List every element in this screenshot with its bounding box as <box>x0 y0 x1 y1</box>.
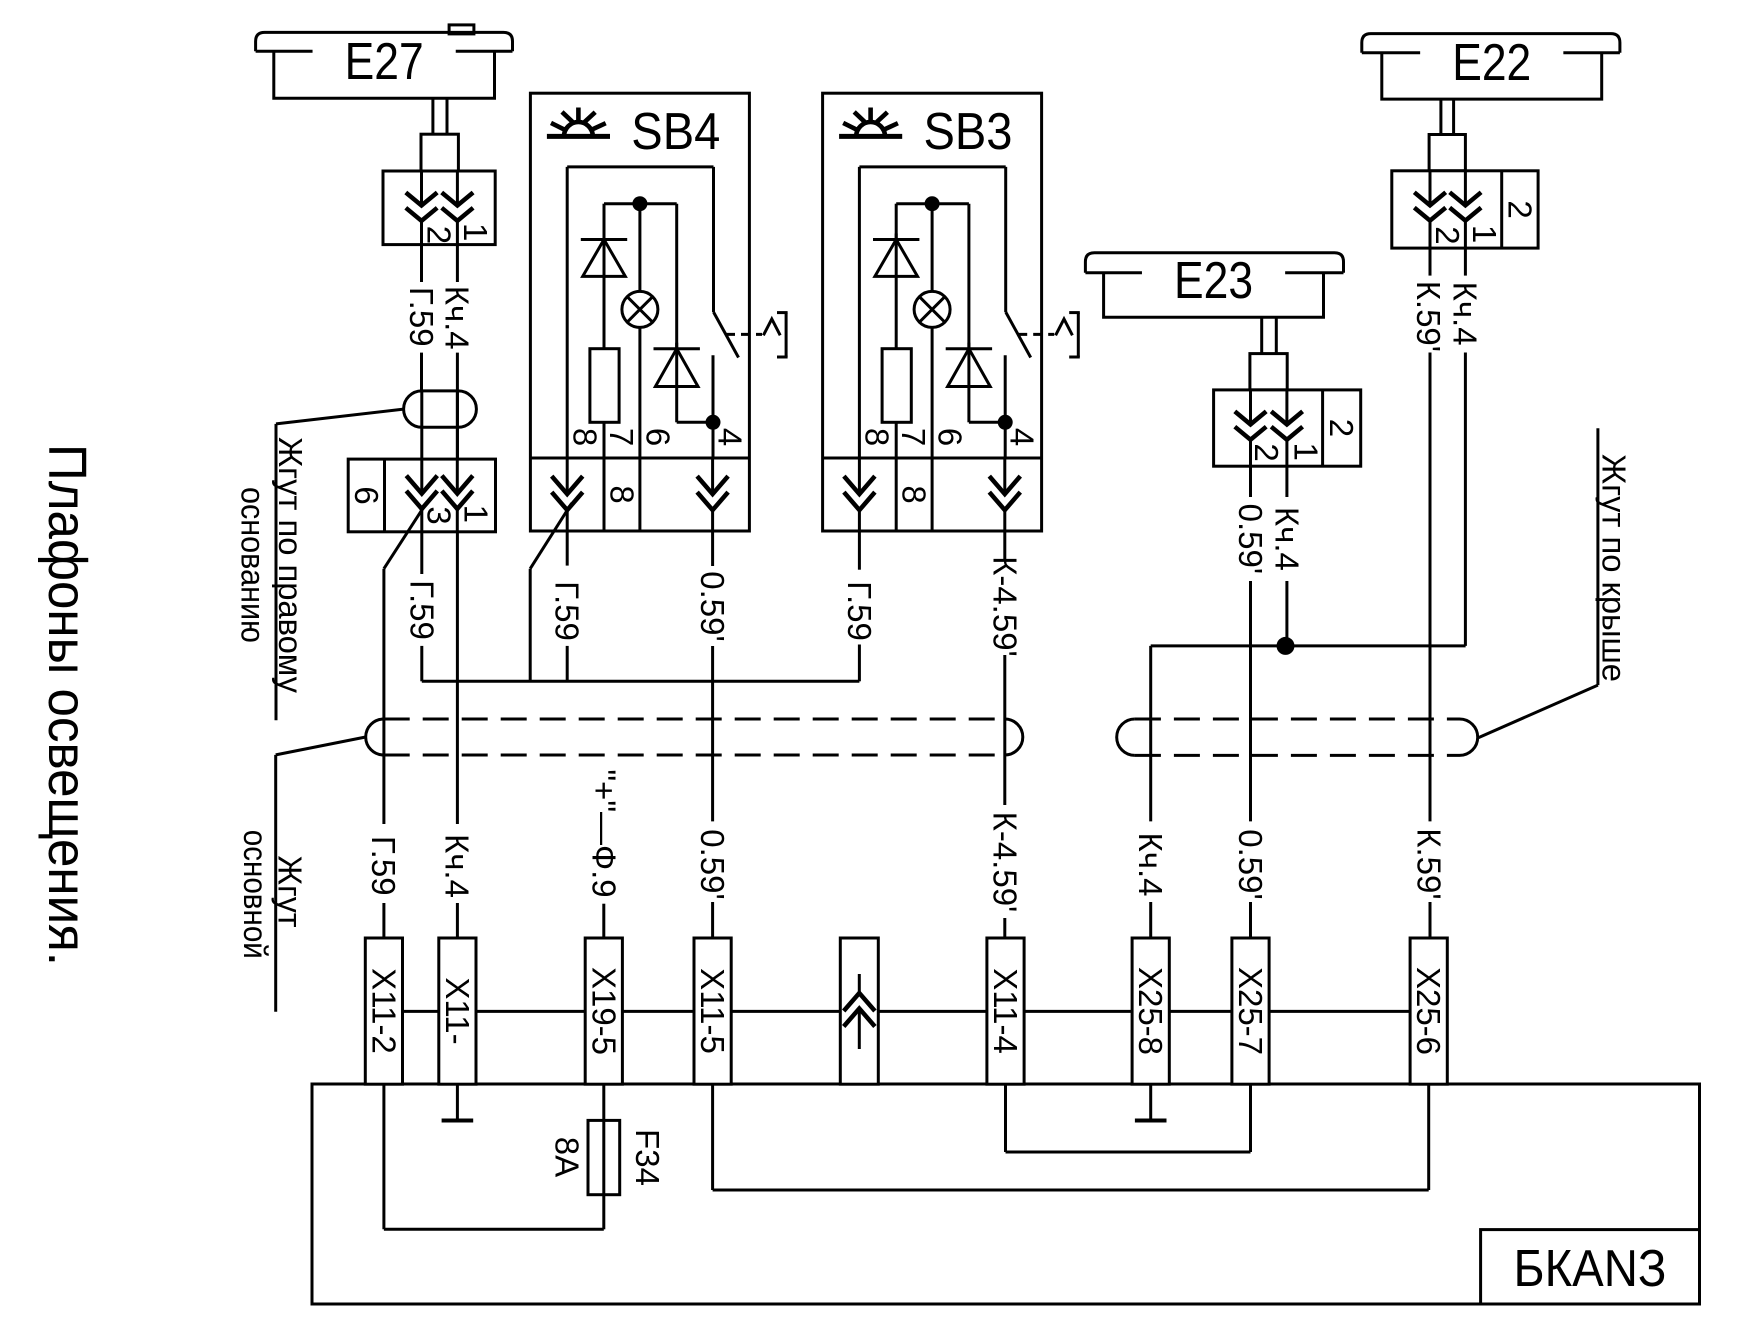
svg-text:6: 6 <box>348 486 385 504</box>
wire link Г.59 horizontal <box>422 680 860 683</box>
wire E27 leads <box>431 98 434 134</box>
connector body <box>1214 390 1361 466</box>
svg-text:основанию: основанию <box>235 487 272 643</box>
svg-text:0.59': 0.59' <box>1232 504 1269 575</box>
svg-text:БКАNЗ: БКАNЗ <box>1514 1240 1667 1298</box>
connector X19-5 <box>585 938 622 1084</box>
bus line <box>384 1010 1429 1013</box>
pin contact arrow 2 <box>456 459 459 494</box>
pin contact arrow 2 <box>1285 390 1288 425</box>
node pin4 junction <box>998 415 1013 430</box>
svg-text:7: 7 <box>603 428 640 446</box>
wire diode2 to pin4 <box>675 387 678 423</box>
harness mark oval <box>404 391 477 427</box>
svg-text:8: 8 <box>859 428 896 446</box>
cell divider <box>1500 171 1503 248</box>
connector X25-8 <box>1132 938 1169 1084</box>
wire Кч.4 drop to X25-8 <box>1149 646 1152 822</box>
svg-text:E22: E22 <box>1452 34 1531 92</box>
wire X11-4 to X25-7 <box>1004 1084 1007 1152</box>
svg-text:2: 2 <box>1429 226 1466 244</box>
svg-text:Г.59: Г.59 <box>403 287 440 347</box>
illumination icon <box>547 108 610 137</box>
block БКАNЗ box <box>312 1084 1700 1304</box>
node pin4 junction <box>706 415 721 430</box>
connector X11 pins 3,1 cell 6 <box>348 459 496 532</box>
illumination icon <box>839 108 902 137</box>
wire Г.59 SB3 pin8 <box>858 531 861 570</box>
tab E27 <box>449 25 474 34</box>
svg-text:E27: E27 <box>345 33 424 91</box>
wire pin 7 <box>895 422 898 458</box>
svg-text:4: 4 <box>712 428 749 446</box>
wire pin 6 <box>931 327 934 458</box>
wire Г.59 bus <box>382 569 385 824</box>
svg-text:1: 1 <box>457 505 494 523</box>
cap E23 <box>1085 253 1343 273</box>
switch blade <box>714 312 739 358</box>
actuator link <box>726 313 788 357</box>
svg-text:2: 2 <box>1323 419 1360 437</box>
node lamp tap <box>632 196 647 211</box>
wire 0.59' E23 pin2 <box>1249 466 1252 497</box>
svg-text:8: 8 <box>604 485 641 503</box>
node Кч.4 junction <box>1277 637 1295 655</box>
inner box / pin8-to-switch wire <box>858 167 861 458</box>
svg-text:SB4: SB4 <box>631 103 720 161</box>
strip contact arrow pin 8 <box>552 458 583 531</box>
svg-text:Г.59: Г.59 <box>549 581 586 641</box>
wire Г.59 pin3 stub <box>420 532 423 574</box>
svg-text:Кч.4: Кч.4 <box>1132 833 1169 897</box>
svg-text:X25-8: X25-8 <box>1132 967 1169 1055</box>
svg-text:Г.59: Г.59 <box>403 580 440 640</box>
leader Жгут основной <box>276 737 366 755</box>
svg-text:0.59': 0.59' <box>694 829 731 900</box>
switch module SB3 <box>823 93 1080 531</box>
svg-text:F34: F34 <box>629 1129 666 1186</box>
plug E22 <box>1429 135 1465 171</box>
svg-text:6: 6 <box>640 428 677 446</box>
pin contact arrow 2 <box>456 171 459 206</box>
wire E22 leads <box>1439 99 1442 134</box>
actuator link <box>1018 313 1080 357</box>
svg-text:К-4.59': К-4.59' <box>986 812 1023 913</box>
wire Г.59 E27 pin2 <box>420 245 423 282</box>
body E22 <box>1382 53 1602 99</box>
svg-text:Жгут по правому: Жгут по правому <box>272 437 309 693</box>
connector body <box>348 459 495 532</box>
svg-text:Кч.4: Кч.4 <box>1268 507 1305 571</box>
wire Кч.4 down to X11- <box>456 532 459 824</box>
wire К.59' E22 pin2 <box>1429 248 1432 276</box>
resistor R1 <box>590 349 619 423</box>
body E27 <box>274 51 495 98</box>
harness Жгут основной dashed outline <box>384 718 1005 721</box>
cell divider <box>1321 390 1324 466</box>
wire lamp top <box>931 204 934 292</box>
plug E23 <box>1250 354 1287 390</box>
body E23 <box>1104 273 1324 318</box>
svg-text:2: 2 <box>1501 200 1538 218</box>
connector X11-5 <box>694 938 731 1084</box>
pin contact arrow 1 <box>1429 171 1432 206</box>
wire X11-2 to fuse <box>382 1084 385 1229</box>
wire riser and diagonal to SB4 pin8 <box>530 503 572 569</box>
svg-text:E23: E23 <box>1174 252 1253 310</box>
wire X11-5 to X25-6 <box>711 1084 714 1190</box>
svg-text:4: 4 <box>1004 428 1041 446</box>
svg-text:6: 6 <box>932 428 969 446</box>
outer box SB3 <box>823 93 1042 531</box>
svg-text:Плафоны освещения.: Плафоны освещения. <box>37 444 97 966</box>
svg-text:X25-7: X25-7 <box>1232 967 1269 1055</box>
svg-text:3: 3 <box>421 506 458 524</box>
pin contact arrow 2 <box>1464 171 1467 206</box>
wire diagonal to pin3 <box>384 503 426 569</box>
leader Жгут по правому основанию <box>276 409 404 424</box>
pin contact arrow 1 <box>420 171 423 206</box>
wire Кч.4 E27 pin1 <box>456 245 459 282</box>
svg-text:К.59': К.59' <box>1410 828 1447 899</box>
svg-text:основной: основной <box>237 830 274 959</box>
svg-text:Кч.4: Кч.4 <box>439 834 476 898</box>
plug E27 <box>421 134 458 171</box>
svg-text:2: 2 <box>1248 443 1285 461</box>
inner box / pin8-to-switch wire <box>566 167 569 458</box>
connector X11-4 <box>987 938 1024 1084</box>
svg-text:7: 7 <box>895 428 932 446</box>
wire Кч.4 E23 pin1 <box>1285 466 1288 497</box>
connector X E27 pins 2,1 <box>383 171 495 245</box>
strip contact arrow pin 4 <box>697 458 728 531</box>
svg-text:Кч.4: Кч.4 <box>439 286 476 350</box>
lamp HL <box>914 291 950 327</box>
wire diode2 to pin4 <box>967 387 970 423</box>
connector X E23 pins 2,1 cell 2 <box>1214 390 1361 466</box>
connector X E22 pins 2,1 cell 2 <box>1392 171 1539 248</box>
connector X11-2 <box>365 938 402 1084</box>
svg-text:X11-5: X11-5 <box>694 968 731 1054</box>
svg-text:Жгут: Жгут <box>272 856 309 928</box>
outer box SB4 <box>530 93 749 531</box>
wire to resistor <box>603 276 606 348</box>
svg-text:"+"—Ф.9: "+"—Ф.9 <box>585 769 622 897</box>
wire E27 to connector <box>420 391 423 427</box>
wire pin 4 <box>712 355 715 458</box>
connector body <box>1392 171 1538 248</box>
diode VD1 <box>581 204 627 277</box>
connector X11- <box>439 938 476 1084</box>
resistor R1 <box>882 349 911 423</box>
wire Г.59 SB4 pin8 stub <box>566 531 569 566</box>
diode VD1 <box>873 204 919 277</box>
connector body <box>383 171 495 245</box>
svg-text:2: 2 <box>421 226 458 244</box>
wire X11- ground <box>456 1084 459 1119</box>
wire Кч.4 junction horizontal <box>1151 644 1466 647</box>
lamp E22 <box>1362 34 1620 100</box>
strip contact arrow pin 4 <box>989 458 1020 531</box>
lamp HL <box>622 291 658 327</box>
svg-text:Г.59: Г.59 <box>841 581 878 641</box>
svg-text:8: 8 <box>567 428 604 446</box>
cell divider <box>383 459 386 532</box>
strip contact arrow pin 8 <box>844 458 875 531</box>
wire to resistor <box>895 276 898 348</box>
wire lamp top <box>638 204 641 292</box>
svg-text:К-4.59': К-4.59' <box>986 556 1023 657</box>
svg-text:X11-2: X11-2 <box>365 968 402 1054</box>
svg-text:8А: 8А <box>549 1137 586 1177</box>
lamp E27 <box>256 25 513 98</box>
harness Жгут по крыше dashed outline <box>1135 718 1460 721</box>
wire Ф.9 stub <box>602 904 605 938</box>
connector chevron out <box>840 938 878 1084</box>
svg-text:1: 1 <box>457 223 494 241</box>
wire pin 6 <box>638 327 641 458</box>
wire X25-8 ground <box>1149 1084 1152 1119</box>
connector strip top line <box>530 457 749 460</box>
svg-text:X11-4: X11-4 <box>987 968 1024 1054</box>
switch module SB4 <box>530 93 787 531</box>
cap E22 <box>1362 34 1620 53</box>
diode VD2 <box>946 204 992 387</box>
wire top rail <box>896 202 969 205</box>
svg-text:SB3: SB3 <box>924 103 1013 161</box>
svg-text:X25-6: X25-6 <box>1410 967 1447 1055</box>
wire pin 7 <box>603 422 606 458</box>
wire 0.59' SB4 pin4 <box>711 531 714 566</box>
wire pin 4 <box>1004 355 1007 458</box>
pin contact arrow 1 <box>1249 390 1252 425</box>
svg-text:0.59': 0.59' <box>694 571 731 642</box>
connector X25-6 <box>1410 938 1447 1084</box>
leader Жгут по крыше <box>1478 685 1598 738</box>
svg-text:1: 1 <box>1288 443 1325 461</box>
wire top rail <box>604 202 677 205</box>
diode VD2 <box>654 204 700 387</box>
node lamp tap <box>925 196 940 211</box>
svg-text:0.59': 0.59' <box>1232 829 1269 900</box>
pin contact arrow 1 <box>420 459 423 494</box>
svg-text:8: 8 <box>896 485 933 503</box>
svg-text:К.59': К.59' <box>1410 281 1447 352</box>
svg-text:Жгут по крыше: Жгут по крыше <box>1595 454 1632 682</box>
wire Кч.4 E22 pin1 <box>1464 248 1467 276</box>
switch blade <box>1006 312 1031 358</box>
cap E27 <box>256 32 513 51</box>
svg-text:X19-5: X19-5 <box>585 967 622 1055</box>
wire E23 leads <box>1260 317 1263 353</box>
svg-text:X11-: X11- <box>439 977 476 1044</box>
fuse F34 8A <box>602 1084 605 1120</box>
label box БКАNЗ <box>1481 1230 1700 1304</box>
strip cell dividers <box>895 458 898 531</box>
svg-text:Г.59: Г.59 <box>365 836 402 896</box>
svg-text:1: 1 <box>1466 225 1503 243</box>
lamp E23 <box>1085 252 1343 317</box>
svg-text:Кч.4: Кч.4 <box>1447 282 1484 346</box>
connector X25-7 <box>1232 938 1269 1084</box>
wire К-4.59' SB3 pin4 <box>1003 531 1006 560</box>
strip cell dividers <box>603 458 606 531</box>
connector strip top line <box>823 457 1042 460</box>
